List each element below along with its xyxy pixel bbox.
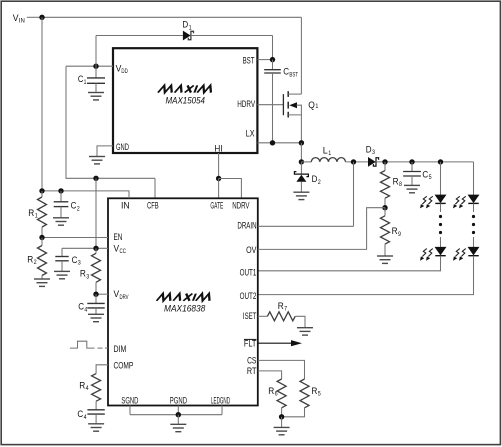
resistor R9 [381,208,390,256]
svg-text:R: R [268,386,274,396]
capacitor C4 upper [87,294,104,314]
svg-text:R: R [80,269,86,279]
wire D1 cathode [191,35,273,37]
svg-text:DIM: DIM [114,344,127,354]
label R8 [393,176,403,188]
wire string1 mid [440,203,442,212]
svg-text:5: 5 [318,391,321,398]
wire L1 right lead [346,161,369,163]
junction R1 top [39,188,44,193]
junction HI-GATE [216,176,221,181]
svg-text:D: D [312,174,318,184]
junction LX-L1-D2 [299,159,304,164]
svg-text:5: 5 [429,174,432,181]
svg-text:R: R [311,386,317,396]
ground MAX15054 [89,157,105,164]
wire LED string2 top [473,162,475,195]
label Q1 [308,100,318,110]
ground R9 [377,256,393,263]
ground C1 [88,93,104,100]
svg-text:4: 4 [86,385,89,392]
svg-text:IN: IN [19,17,25,24]
junction C5 top [409,159,414,164]
svg-text:HI: HI [214,144,222,154]
wire HI drop [218,153,220,179]
op-amp U1 logo MAXIM [158,85,214,92]
LED arrows string1 B [420,249,433,261]
wire GATE drop [218,179,220,199]
IC U1 MAX15054 box [113,48,257,153]
svg-text:MAX16838: MAX16838 [164,304,206,315]
svg-text:4: 4 [84,306,87,313]
svg-text:R: R [392,226,398,236]
svg-text:1: 1 [189,24,192,31]
diode D3 [368,157,379,167]
label R3 [80,269,90,281]
svg-text:2: 2 [34,259,37,266]
junction VDD C1 [93,63,98,68]
svg-text:BST: BST [289,71,298,78]
ground D2 [293,192,309,199]
capacitor C1 [87,66,105,92]
svg-text:PGND: PGND [170,396,187,406]
junction L1-DRAIN [351,159,356,164]
LED string1 diode B [435,247,445,255]
svg-text:C: C [78,302,84,312]
svg-text:C: C [77,409,83,419]
svg-text:7: 7 [284,306,287,313]
svg-text:OV: OV [246,245,257,255]
label L1 [323,146,332,157]
wire VIN left rail [41,17,43,191]
label D1 [182,20,191,32]
LED arrows string1 A [420,196,433,208]
LED arrows string2 A [453,196,466,208]
label D3 [366,144,375,156]
svg-text:FLT: FLT [244,339,257,349]
capacitor CBST [264,60,281,143]
svg-text:CFB: CFB [147,200,159,210]
pin VDRV label [114,289,129,301]
label R4 [79,380,89,392]
junction BST [270,57,275,62]
resistor R1 [38,191,47,238]
LED arrows string2 B [453,249,466,261]
wire LED string1 [440,162,442,195]
wire PGND drop [177,406,179,415]
IC U2 MAX16838 box [108,198,258,405]
wire GND pin MAX15054 [97,146,113,157]
svg-text:C: C [283,67,289,77]
wire IN net [42,191,129,198]
node DIM pulse input [70,341,108,348]
ground R5-R6 [274,427,290,434]
label C1 [78,74,87,86]
svg-text:D: D [182,20,188,30]
svg-text:3: 3 [78,260,81,267]
ground C3 [54,271,70,278]
svg-text:Q: Q [308,100,315,110]
svg-text:D: D [366,144,372,154]
svg-text:COMP: COMP [114,361,134,371]
svg-text:L: L [323,146,328,156]
pin FLT label with overline [244,339,257,349]
junction R5-R6 [279,414,284,419]
resistor R4 [92,374,101,410]
svg-text:CS: CS [247,356,256,366]
svg-text:R: R [28,208,34,218]
pin VDD label [116,64,128,75]
ground PGND [170,424,186,431]
junction LED string1 top [438,159,443,164]
ground C4 upper [88,314,104,321]
wire LX pin [257,142,301,144]
svg-text:3: 3 [372,149,375,156]
svg-text:CC: CC [120,248,127,255]
junction R8-R9-OV [382,205,387,210]
node VIN [13,13,25,24]
junction EN [39,235,44,240]
junction VCC [93,246,98,251]
wire D3 cathode rail [376,161,473,163]
ground C5 [404,185,420,192]
svg-text:3: 3 [86,273,89,280]
svg-text:RT: RT [247,366,257,376]
label C4 upper [78,302,87,314]
resistor R5 [282,379,309,417]
wire string2 mid [473,203,475,212]
wire BST riser [272,36,274,60]
capacitor C5 [403,162,421,186]
svg-text:2: 2 [318,179,321,186]
label C5 [422,169,431,181]
label R6 [268,386,278,398]
svg-text:8: 8 [399,181,402,188]
IC U2 logo MAXIM [157,294,213,301]
svg-text:LEDGND: LEDGND [211,396,230,406]
resistor R8 [381,162,390,208]
capacitor C4 lower [87,410,104,424]
wire COMP net [96,365,108,374]
wire DRAIN riser [353,162,355,226]
svg-text:NDRV: NDRV [232,200,250,210]
label C3 [72,255,81,267]
wire ground rail [130,414,222,416]
label R7 [278,301,288,313]
junction VIN [39,15,44,20]
svg-text:R: R [278,301,284,311]
resistor R2 [38,238,47,280]
LED string2 diode A [468,195,478,203]
diode D1 [183,31,194,41]
wire Q1 drain drop [300,17,302,94]
junction VDRV [93,292,98,297]
label R2 [27,254,37,266]
ground R2 [34,279,50,286]
wire D1 anode [96,35,183,37]
svg-text:R: R [79,380,85,390]
ground C4 lower [88,424,104,431]
svg-text:GATE: GATE [210,200,223,210]
svg-text:HDRV: HDRV [237,99,255,109]
label D2 [312,174,321,186]
wire NDRV branch [219,179,242,199]
ground C2 [53,218,69,225]
wire string1 return [258,256,441,271]
capacitor C3 [55,248,68,271]
diode D2 [294,162,308,192]
wire string2 return [258,256,474,295]
wire LEDGND drop [221,406,223,415]
wire RT net [258,371,282,379]
inductor L1 [311,158,345,162]
wire DRAIN net [258,225,354,227]
node ellipsis string2 [472,215,475,234]
svg-text:C: C [71,201,77,211]
svg-text:1: 1 [328,150,331,157]
junction PGND [176,412,181,417]
junction LX-Q1 [299,140,304,145]
resistor R3 [92,248,101,294]
wire CS net [258,360,305,379]
junction CFB-VCC node [93,176,98,181]
svg-text:DD: DD [121,68,128,75]
svg-text:OUT1: OUT1 [240,268,257,278]
ground R7 [297,328,313,335]
LED string1 diode A [435,195,445,203]
wire VDD pin [66,65,113,67]
svg-text:9: 9 [398,231,401,238]
svg-text:C: C [422,169,428,179]
svg-text:1: 1 [84,79,87,86]
wire LX drop [300,143,302,162]
junction R8 top [382,159,387,164]
junction C2 top [58,188,63,193]
wire VCC net [62,247,108,249]
svg-text:MAX15054: MAX15054 [166,95,206,106]
wire SGND drop [129,406,131,415]
wire OV net [258,208,385,250]
svg-text:IN: IN [121,200,130,210]
wire VCC drop [95,178,97,248]
junction LX-CBST [270,140,275,145]
wire VDD down-left [66,66,155,178]
wire VDRV pin [96,293,108,295]
svg-text:SGND: SGND [121,396,138,406]
svg-text:DRAIN: DRAIN [237,221,256,231]
wire ISET lead [258,315,268,317]
svg-text:R: R [393,176,399,186]
LED string2 diode B [468,247,478,255]
svg-text:ISET: ISET [243,311,257,321]
label R9 [392,226,402,238]
svg-text:6: 6 [275,391,278,398]
svg-text:C: C [72,255,78,265]
svg-text:R: R [27,254,33,264]
resistor R7 [267,312,305,328]
transistor Q1 [257,91,301,143]
svg-text:1: 1 [315,103,318,110]
label C4 lower [77,409,86,421]
wire string2 mid2 [473,237,475,247]
label R5 [311,386,321,398]
svg-text:EN: EN [114,232,123,242]
svg-text:DRV: DRV [120,294,129,301]
svg-text:4: 4 [84,414,87,421]
label C2 [71,201,80,213]
pin VCC label [114,244,127,256]
wire PGND gnd lead [177,415,179,425]
wire VIN lead [27,16,42,18]
wire VIN top rail [42,16,301,18]
wire string1 mid2 [440,237,442,247]
capacitor C2 [54,191,69,218]
node ellipsis string1 [439,215,442,234]
resistor R6 [277,379,286,417]
label R1 [28,208,38,220]
svg-text:BST: BST [243,55,255,65]
wire EN net [42,237,108,239]
svg-text:2: 2 [77,205,80,212]
svg-text:OUT2: OUT2 [240,291,257,301]
svg-text:GND: GND [116,142,129,152]
wire R6 gnd lead [281,417,283,428]
wire D1 riser [95,36,97,67]
wire BST pin [257,59,272,61]
label CBST [283,67,298,79]
wire L1 left lead [301,161,311,163]
svg-text:LX: LX [246,129,255,139]
svg-text:1: 1 [35,213,38,220]
wire CFB drop [154,178,156,198]
wire FLT arrow [258,340,302,346]
